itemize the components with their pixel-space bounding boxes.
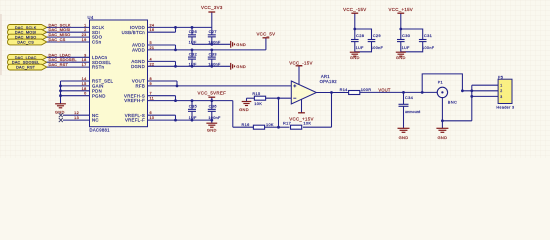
wire VOUT bbox=[148, 81, 178, 86]
port DAC_CS bbox=[7, 39, 46, 45]
svg-text:U4: U4 bbox=[88, 15, 94, 20]
power group VCC_-15V with C28 C29 bbox=[343, 7, 383, 60]
port DAC_MOSI bbox=[8, 29, 47, 35]
junction dots DGND rail bbox=[174, 65, 213, 68]
sheet border fragment bbox=[0, 14, 2, 75]
power VCC_+15V op-amp bottom bbox=[289, 99, 314, 121]
wire R17 to feedback bbox=[303, 93, 332, 128]
svg-text:12: 12 bbox=[74, 111, 79, 115]
svg-text:AVDD: AVDD bbox=[132, 47, 145, 52]
svg-text:CSn: CSn bbox=[92, 40, 102, 45]
svg-text:IOVDD: IOVDD bbox=[130, 25, 145, 30]
svg-text:GND: GND bbox=[438, 135, 448, 140]
resistor R16 bbox=[242, 122, 274, 129]
svg-text:100nF: 100nF bbox=[371, 46, 384, 50]
no-connect marks NC pins bbox=[59, 113, 63, 122]
wire DAC_CS bbox=[47, 41, 90, 43]
pin number 23 bbox=[82, 33, 87, 37]
svg-text:C35: C35 bbox=[189, 104, 198, 109]
svg-text:NC: NC bbox=[92, 113, 99, 118]
svg-text:22: 22 bbox=[150, 62, 155, 66]
junction dots AVDD rail bbox=[174, 48, 213, 51]
wire VREFL-S join bbox=[148, 115, 176, 120]
wire AVDD rail bbox=[148, 49, 266, 51]
svg-text:VCC_3V3: VCC_3V3 bbox=[201, 5, 223, 10]
junction dots IOVDD rail bbox=[174, 26, 193, 29]
svg-text:VCC_+15V: VCC_+15V bbox=[289, 116, 314, 121]
wire R15 left to ground bbox=[247, 98, 255, 101]
svg-text:AVDD: AVDD bbox=[132, 43, 145, 48]
svg-text:SDO: SDO bbox=[92, 35, 103, 40]
svg-text:RFB: RFB bbox=[136, 84, 146, 89]
ground arrow GND 2 bbox=[231, 63, 246, 70]
svg-text:R15: R15 bbox=[252, 91, 260, 96]
svg-text:SDI: SDI bbox=[92, 30, 100, 35]
svg-text:15: 15 bbox=[82, 82, 87, 86]
port DAC_MISO bbox=[8, 34, 47, 40]
svg-text:C33: C33 bbox=[209, 51, 218, 56]
svg-text:GND: GND bbox=[239, 107, 249, 112]
power VCC_5V bbox=[256, 32, 275, 50]
svg-text:C28: C28 bbox=[356, 33, 365, 38]
wire NC pins bbox=[63, 115, 90, 120]
svg-text:VREFL-S: VREFL-S bbox=[125, 113, 145, 118]
wire DAC_MOSI bbox=[47, 31, 90, 33]
wire DAC_SDOSEL bbox=[47, 61, 90, 63]
svg-text:18: 18 bbox=[82, 87, 87, 91]
svg-text:8: 8 bbox=[150, 77, 152, 81]
wire IOVDD rail bbox=[148, 26, 212, 28]
power VCC_3V3 bbox=[201, 5, 223, 27]
svg-text:0: 0 bbox=[84, 92, 86, 96]
junction dots VREFL rail bbox=[174, 119, 213, 122]
pin number 18 bbox=[82, 58, 87, 62]
connector P5 header body bbox=[498, 79, 512, 103]
capacitor C35 bbox=[188, 101, 198, 121]
net label DAC_CS bbox=[49, 37, 66, 42]
svg-text:VREFH-F: VREFH-F bbox=[124, 98, 145, 103]
svg-text:GND: GND bbox=[236, 42, 246, 47]
port DAC_LDAC bbox=[8, 54, 47, 60]
svg-text:6: 6 bbox=[150, 111, 152, 115]
junction dot BNC loop tap bbox=[421, 91, 424, 94]
op-amp AR1 OPA192 bbox=[291, 81, 316, 104]
svg-text:VCC_5V: VCC_5V bbox=[256, 32, 275, 37]
net label DAC_RST bbox=[49, 62, 69, 67]
svg-text:Header 3: Header 3 bbox=[496, 106, 514, 110]
svg-text:C26: C26 bbox=[189, 29, 198, 34]
wire header pin stubs bbox=[462, 85, 498, 96]
svg-text:R14: R14 bbox=[340, 87, 349, 92]
svg-text:2: 2 bbox=[500, 89, 502, 93]
svg-text:LDACn: LDACn bbox=[92, 55, 108, 60]
connector P1 BNC bbox=[437, 87, 447, 97]
svg-text:USB/BTCn: USB/BTCn bbox=[122, 30, 146, 35]
svg-text:VOUT: VOUT bbox=[378, 87, 390, 92]
svg-text:DAC_MISO: DAC_MISO bbox=[49, 32, 71, 37]
resistor R14 bbox=[340, 87, 372, 94]
pin number 19 bbox=[82, 38, 87, 42]
power VCC_5VREF bbox=[198, 91, 227, 101]
svg-text:RST_SEL: RST_SEL bbox=[92, 79, 114, 84]
svg-text:GND: GND bbox=[396, 55, 406, 60]
net label DAC_MISO bbox=[49, 32, 71, 37]
designator U4 bbox=[88, 15, 94, 20]
net label DAC_MOSI bbox=[49, 27, 71, 32]
svg-text:AGND: AGND bbox=[131, 59, 145, 64]
wire AGND join bbox=[148, 61, 176, 66]
IC U4 DAC9881 body bbox=[90, 20, 148, 127]
wire RFB rail to op-amp + bbox=[148, 85, 292, 87]
wire BNC shield ground bbox=[442, 97, 471, 128]
U4 right pin names bbox=[122, 25, 146, 123]
svg-text:R17: R17 bbox=[283, 121, 291, 126]
svg-text:VREFH-S: VREFH-S bbox=[124, 93, 145, 98]
svg-text:NC: NC bbox=[92, 118, 99, 123]
resistor R17 bbox=[283, 121, 311, 130]
wire R14 to BNC bbox=[360, 91, 438, 93]
svg-text:OPA192: OPA192 bbox=[320, 79, 338, 84]
pin number 3 bbox=[84, 53, 86, 57]
port DAC_RST bbox=[7, 64, 46, 70]
junction dot inverting node bbox=[277, 97, 280, 100]
port DAC_SDOSEL bbox=[8, 59, 47, 65]
svg-text:3: 3 bbox=[84, 53, 86, 57]
net label DAC_LDAC bbox=[49, 52, 71, 57]
svg-text:GND: GND bbox=[207, 128, 217, 133]
svg-text:24: 24 bbox=[150, 23, 155, 27]
junction dot VOUT/RFB bbox=[176, 85, 179, 88]
power group VCC_+15V with C30 C31 bbox=[389, 7, 435, 60]
svg-text:1UF: 1UF bbox=[356, 46, 364, 50]
designator AR1 bbox=[321, 74, 330, 79]
wire VREFH-F rail bbox=[148, 100, 233, 102]
svg-text:DAC9881: DAC9881 bbox=[90, 128, 111, 133]
capacitor C36 bbox=[208, 101, 221, 121]
svg-text:DAC_MOSI: DAC_MOSI bbox=[49, 27, 71, 32]
svg-text:10K: 10K bbox=[266, 122, 274, 127]
wire R16 to node bbox=[265, 126, 279, 128]
svg-text:100nF: 100nF bbox=[422, 46, 435, 50]
wire DAC_LDAC bbox=[47, 56, 90, 58]
wire DGND ground rail bbox=[148, 65, 231, 67]
capacitor C33 bbox=[208, 50, 221, 67]
svg-text:GND: GND bbox=[236, 64, 246, 69]
svg-text:GND: GND bbox=[350, 55, 360, 60]
svg-text:VCC_5VREF: VCC_5VREF bbox=[198, 91, 227, 96]
wire DAC_SCLK bbox=[47, 26, 90, 28]
svg-text:GND: GND bbox=[399, 135, 409, 140]
capacitor C34 bbox=[399, 92, 421, 128]
wire C26/C27 ground rail bbox=[192, 43, 231, 45]
pin number 1 bbox=[84, 23, 86, 27]
svg-text:DGND: DGND bbox=[131, 64, 145, 69]
svg-text:DAC_RST: DAC_RST bbox=[49, 62, 69, 67]
svg-text:C31: C31 bbox=[424, 33, 433, 38]
svg-text:VOUT: VOUT bbox=[132, 79, 145, 84]
svg-text:P1: P1 bbox=[438, 81, 443, 85]
wire node to R17 bbox=[279, 126, 290, 128]
wire inverting node vertical bbox=[277, 98, 279, 127]
U4 lower-left pin numbers bbox=[74, 77, 86, 120]
wire RST_SEL/GAIN/PDN/PGND bundle bbox=[61, 81, 90, 104]
comment DAC9881 bbox=[90, 128, 111, 133]
svg-text:C29: C29 bbox=[373, 33, 382, 38]
svg-text:BNC: BNC bbox=[448, 99, 457, 104]
svg-text:VCC_-15V: VCC_-15V bbox=[343, 7, 366, 12]
svg-text:3: 3 bbox=[500, 95, 502, 99]
junction dots header bbox=[470, 89, 473, 97]
power VCC_-15V op-amp top bbox=[289, 60, 312, 84]
svg-text:14: 14 bbox=[82, 77, 87, 81]
svg-text:1UF: 1UF bbox=[402, 46, 410, 50]
ground PGND bundle bbox=[55, 104, 66, 115]
wire op-amp output bbox=[316, 91, 348, 93]
svg-text:C27: C27 bbox=[209, 29, 218, 34]
svg-text:SDOSEL: SDOSEL bbox=[92, 60, 112, 65]
svg-text:VCC_+15V: VCC_+15V bbox=[389, 7, 414, 12]
designator P1 bbox=[438, 81, 443, 85]
junction dot loop to header bbox=[461, 89, 464, 92]
svg-text:P5: P5 bbox=[498, 75, 503, 79]
wire AVDD upper join bbox=[148, 45, 176, 50]
svg-text:C36: C36 bbox=[209, 104, 218, 109]
wire DAC_RST bbox=[47, 66, 90, 68]
ground GND VREF bbox=[206, 120, 217, 133]
svg-text:AR1: AR1 bbox=[321, 74, 330, 79]
svg-text:1: 1 bbox=[84, 23, 86, 27]
net label DAC_SCLK bbox=[49, 22, 71, 27]
comment BNC bbox=[448, 99, 457, 104]
svg-text:7: 7 bbox=[150, 92, 152, 96]
junction dot BNC shield bbox=[441, 119, 444, 122]
svg-text:C32: C32 bbox=[189, 51, 198, 56]
svg-text:5: 5 bbox=[150, 41, 152, 45]
wire VREFL-F rail bbox=[148, 119, 212, 121]
pin number 17 bbox=[82, 63, 87, 67]
capacitor C32 bbox=[188, 50, 198, 67]
ground arrow GND 1 bbox=[231, 41, 246, 48]
wire VREFH to R16 bbox=[233, 101, 254, 128]
svg-text:1: 1 bbox=[500, 84, 502, 88]
wire USB/BTCn join bbox=[148, 27, 176, 32]
svg-text:PGND: PGND bbox=[92, 93, 106, 98]
svg-text:PDN: PDN bbox=[92, 88, 102, 93]
junction dots VREFH rail bbox=[174, 99, 213, 102]
svg-text:GAIN: GAIN bbox=[92, 84, 104, 89]
designator P5 bbox=[498, 75, 503, 79]
svg-text:100R: 100R bbox=[361, 87, 372, 92]
junction dot R16/R17 node bbox=[277, 126, 280, 129]
svg-text:DAC_LDAC: DAC_LDAC bbox=[49, 52, 71, 57]
ground GND C34 bbox=[398, 128, 410, 140]
svg-text:VREFL-F: VREFL-F bbox=[125, 118, 145, 123]
svg-text:DAC_CS: DAC_CS bbox=[17, 41, 34, 45]
port DAC_SCLK bbox=[8, 25, 47, 31]
U4 right pin numbers bbox=[150, 23, 155, 120]
junction dots control bundle bbox=[59, 85, 62, 98]
svg-text:21: 21 bbox=[150, 46, 155, 50]
junction dot C27 gnd bbox=[210, 43, 213, 46]
svg-text:10: 10 bbox=[150, 116, 155, 120]
ground GND BNC bbox=[436, 128, 448, 140]
svg-text:10K: 10K bbox=[303, 121, 311, 126]
U4 left pin names bbox=[92, 25, 114, 123]
wire DAC_MISO bbox=[47, 36, 90, 38]
svg-text:C34: C34 bbox=[405, 95, 414, 100]
junction dot C34 tap bbox=[402, 91, 405, 94]
comment Header 3 bbox=[496, 106, 514, 110]
resistor R15 bbox=[252, 91, 265, 106]
net label DAC_SDOSEL bbox=[49, 57, 78, 62]
capacitor C27 bbox=[208, 27, 221, 44]
svg-text:DAC_SDOSEL: DAC_SDOSEL bbox=[49, 57, 78, 62]
wire VREFH-S join bbox=[148, 96, 176, 101]
svg-text:4: 4 bbox=[150, 57, 152, 61]
svg-text:23: 23 bbox=[82, 33, 87, 37]
svg-text:C30: C30 bbox=[402, 33, 411, 38]
svg-text:19: 19 bbox=[82, 38, 87, 42]
pin number 2 bbox=[84, 28, 86, 32]
net label VOUT bbox=[378, 87, 390, 92]
wire header tie vertical bbox=[471, 85, 473, 121]
wire BNC bypass loop bbox=[422, 74, 462, 93]
svg-text:RSTn: RSTn bbox=[92, 65, 104, 70]
svg-text:R16: R16 bbox=[242, 122, 250, 127]
ground GND R15 bbox=[239, 102, 251, 113]
svg-text:9: 9 bbox=[150, 82, 152, 86]
svg-text:18: 18 bbox=[82, 58, 87, 62]
svg-text:16: 16 bbox=[150, 28, 155, 32]
svg-text:SCLK: SCLK bbox=[92, 25, 104, 30]
junction dot feedback tap bbox=[330, 91, 333, 94]
svg-text:DAC_CS: DAC_CS bbox=[49, 37, 66, 42]
svg-text:unmount: unmount bbox=[405, 110, 420, 114]
comment OPA192 bbox=[320, 79, 338, 84]
svg-text:13: 13 bbox=[74, 116, 79, 120]
svg-text:DAC_RST: DAC_RST bbox=[16, 66, 36, 70]
svg-text:11: 11 bbox=[150, 97, 155, 101]
svg-text:10K: 10K bbox=[254, 101, 262, 106]
capacitor C26 bbox=[188, 27, 198, 44]
wire R15 to inverting input bbox=[266, 97, 292, 99]
svg-text:DAC_SCLK: DAC_SCLK bbox=[49, 22, 71, 27]
svg-text:17: 17 bbox=[82, 63, 87, 67]
svg-text:2: 2 bbox=[84, 28, 86, 32]
svg-text:VCC_-15V: VCC_-15V bbox=[289, 60, 312, 65]
